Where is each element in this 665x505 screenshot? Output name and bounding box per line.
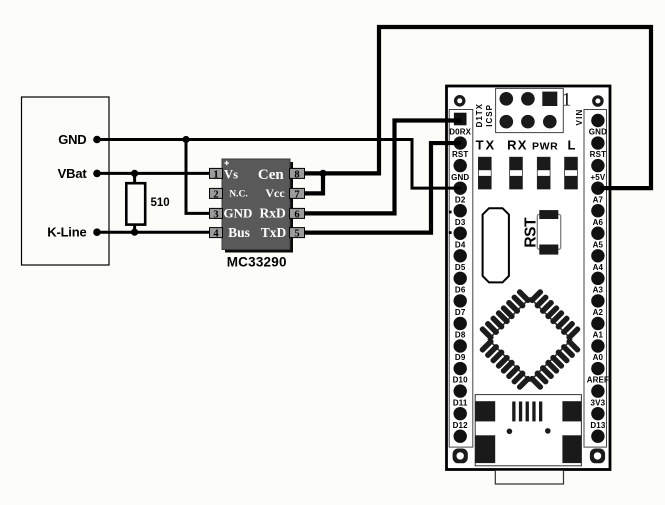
- wire IC pin7 (Vcc) loop up to pin8 wire: [302, 173, 324, 193]
- svg-text:GND: GND: [224, 205, 253, 220]
- RST component top pad: [539, 210, 558, 219]
- wire VBat to IC pin 1: [97, 172, 213, 175]
- ICSP pad pin1 (square): [542, 92, 557, 106]
- junction pin8/pin7: [319, 170, 326, 177]
- nano left pin D4: [454, 249, 467, 262]
- USB alignment hole right: [545, 428, 551, 434]
- svg-text:A1: A1: [593, 331, 604, 340]
- svg-text:510: 510: [151, 197, 170, 209]
- svg-text:D4: D4: [455, 240, 466, 249]
- resistor R1 body: [126, 183, 145, 224]
- svg-text:A3: A3: [593, 286, 604, 295]
- USB shield tab bottom-left: [475, 435, 495, 463]
- svg-text:6: 6: [294, 209, 299, 220]
- nano left pin D3: [454, 227, 467, 240]
- wire resistor top lead: [133, 173, 136, 183]
- svg-text:Vcc: Vcc: [265, 186, 285, 200]
- wire GND: box to junction, across to nano GND pin: [97, 140, 461, 189]
- ICSP header box: [496, 88, 564, 132]
- svg-text:7: 7: [294, 189, 299, 200]
- svg-text:N.C.: N.C.: [229, 190, 247, 200]
- nano left pin D11: [454, 407, 467, 420]
- ICSP pad bottom row: [500, 115, 514, 129]
- svg-text:D13: D13: [590, 421, 606, 430]
- svg-text:K-Line: K-Line: [47, 225, 86, 240]
- mounting hole top-right: [592, 95, 604, 107]
- svg-text:+5V: +5V: [590, 173, 605, 182]
- wire resistor bottom lead: [133, 225, 136, 233]
- nano left pin D12: [454, 430, 467, 443]
- svg-text:D7: D7: [455, 308, 466, 317]
- svg-text:VIN: VIN: [575, 109, 584, 126]
- terminal dot K-Line: [93, 228, 101, 236]
- ICSP pad bottom row: [543, 115, 557, 129]
- svg-text:D11: D11: [453, 398, 468, 407]
- USB shield tab bottom-right: [562, 435, 581, 463]
- svg-text:D2: D2: [455, 195, 466, 204]
- MCU QFP chip (rotated 45deg): [468, 278, 591, 401]
- nano pin D1/TX (square pad): [454, 113, 467, 126]
- svg-text:D8: D8: [455, 331, 466, 340]
- svg-text:A6: A6: [593, 218, 604, 227]
- nano right pin A2: [591, 317, 604, 330]
- nano right pin +5V: [591, 181, 604, 194]
- IC pin 5 stub: [290, 228, 305, 238]
- svg-text:3: 3: [213, 209, 218, 220]
- nano right pin GND: [591, 136, 604, 149]
- svg-text:Cen: Cen: [258, 167, 284, 183]
- nano left pin D7: [454, 317, 467, 330]
- svg-text:D3: D3: [455, 218, 466, 227]
- svg-text:A7: A7: [593, 195, 604, 204]
- svg-text:GND: GND: [451, 173, 469, 182]
- nano right pin A4: [591, 272, 604, 285]
- svg-text:A4: A4: [593, 263, 604, 272]
- svg-text:L: L: [568, 138, 576, 153]
- wire GND branch down to IC pin 3: [186, 140, 213, 214]
- svg-text:8: 8: [294, 169, 299, 180]
- mounting hole bottom-right: [590, 449, 605, 464]
- svg-text:D0RX: D0RX: [449, 128, 471, 137]
- svg-text:1: 1: [562, 91, 571, 111]
- nano left pin RST: [454, 159, 467, 172]
- nano left pin GND: [454, 181, 467, 194]
- svg-text:1: 1: [213, 169, 218, 180]
- connector box (GND / VBat / K-Line): [22, 97, 110, 265]
- LED RX package: [510, 157, 523, 189]
- svg-text:RST: RST: [590, 150, 606, 159]
- tick mark left of D2: [449, 211, 452, 214]
- oscillator / crystal: [483, 208, 509, 282]
- USB contact stripes: [512, 402, 542, 422]
- mounting hole top-left: [454, 95, 466, 107]
- svg-text:D6: D6: [455, 286, 466, 295]
- nano right pin A0: [591, 362, 604, 375]
- svg-text:A5: A5: [593, 240, 604, 249]
- tick mark left of D3: [449, 231, 452, 234]
- nano right pin A1: [591, 339, 604, 352]
- ICSP pad bottom row: [521, 115, 535, 129]
- junction resistor/VBat: [131, 170, 138, 177]
- LED L package: [565, 157, 578, 189]
- IC pin 1 stub: [210, 168, 223, 178]
- nano left pin D5: [454, 272, 467, 285]
- svg-text:VBat: VBat: [58, 166, 88, 181]
- ICSP pad top row: [521, 92, 535, 106]
- svg-text:D10: D10: [453, 376, 469, 385]
- IC pin 2 stub: [210, 188, 223, 198]
- terminal dot VBat: [93, 170, 101, 178]
- svg-text:AREF: AREF: [587, 376, 609, 385]
- svg-text:RST: RST: [452, 150, 468, 159]
- IC pin1 polarity mark: [225, 161, 229, 165]
- right pin strip: [584, 110, 607, 448]
- nano right pin RST: [591, 159, 604, 172]
- svg-text:5: 5: [294, 229, 299, 240]
- svg-text:RX: RX: [507, 138, 527, 153]
- nano right pin A3: [591, 294, 604, 307]
- wire IC pin8 (Cen) to +5V net: right, up, across top, down to nano +5V pin: [302, 27, 652, 188]
- nano left pin D6: [454, 294, 467, 307]
- IC pin 7 stub: [290, 188, 305, 198]
- svg-text:D9: D9: [455, 353, 466, 362]
- nano right pin 3V3: [591, 407, 604, 420]
- terminal dot GND: [93, 136, 101, 144]
- svg-text:GND: GND: [589, 128, 607, 137]
- svg-text:A2: A2: [593, 308, 604, 317]
- junction resistor/K-Line: [131, 229, 138, 236]
- left pin strip: [449, 110, 473, 448]
- nano right pin A6: [591, 227, 604, 240]
- nano right pin A5: [591, 249, 604, 262]
- USB connector overhang below board: [495, 471, 563, 484]
- LED TX package: [478, 157, 491, 189]
- svg-text:GND: GND: [58, 132, 86, 147]
- ICSP pad top row: [500, 92, 514, 106]
- wire IC pin5 (TxD) to nano D0RX pin: [302, 143, 462, 233]
- IC pin 8 stub: [290, 168, 305, 178]
- svg-text:D1TX: D1TX: [475, 103, 484, 127]
- USB shield tab top-left: [475, 401, 495, 421]
- svg-text:TX: TX: [476, 138, 497, 153]
- nano left pin D0RX: [454, 136, 467, 149]
- svg-text:3V3: 3V3: [591, 398, 606, 407]
- RST component body: [537, 214, 560, 249]
- svg-text:2: 2: [213, 189, 218, 200]
- RST component bottom pad: [539, 245, 558, 255]
- wire IC pin6 (RxD) to nano TX square pin: [302, 121, 462, 214]
- IC pin 6 stub: [290, 208, 305, 218]
- IC pin 3 stub: [210, 208, 223, 218]
- arduino nano board outline: [447, 86, 611, 470]
- USB alignment hole left: [507, 429, 513, 435]
- svg-text:D12: D12: [453, 421, 469, 430]
- LED PWR package: [537, 157, 550, 189]
- svg-text:PWR: PWR: [532, 141, 558, 153]
- svg-text:ICSP: ICSP: [485, 104, 494, 127]
- nano left pin D8: [454, 339, 467, 352]
- svg-text:4: 4: [213, 229, 219, 240]
- svg-text:TxD: TxD: [261, 225, 287, 240]
- nano right pin D13: [591, 430, 604, 443]
- USB connector body: [475, 395, 581, 466]
- nano right pin AREF: [591, 384, 604, 397]
- IC pin 4 stub: [210, 228, 223, 238]
- mounting hole bottom-left: [453, 449, 468, 464]
- svg-text:Vs: Vs: [224, 167, 238, 181]
- op IC U1 MC33290 shadow: [225, 162, 293, 253]
- svg-text:Bus: Bus: [228, 225, 250, 240]
- junction GND branch: [182, 136, 189, 143]
- svg-text:MC33290: MC33290: [227, 255, 287, 270]
- wire K-Line to IC pin 4: [97, 231, 213, 234]
- nano right pin A7: [591, 204, 604, 217]
- nano left pin D2: [454, 204, 467, 217]
- svg-text:A0: A0: [593, 353, 604, 362]
- nano left pin D9: [454, 362, 467, 375]
- USB shield tab top-right: [562, 401, 581, 421]
- svg-text:D5: D5: [455, 263, 466, 272]
- nano right pin VIN: [591, 114, 604, 127]
- IC U1 MC33290 body: [222, 159, 290, 250]
- svg-text:RxD: RxD: [259, 205, 285, 220]
- nano left pin D10: [454, 384, 467, 397]
